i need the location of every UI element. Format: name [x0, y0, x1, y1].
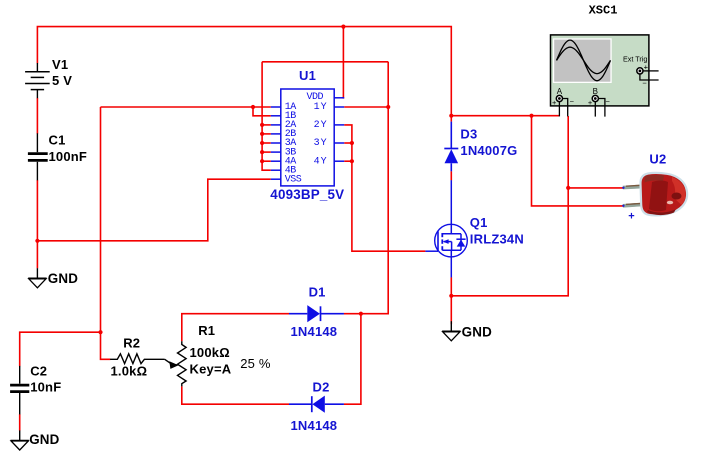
svg-text:GND: GND [462, 325, 492, 340]
svg-text:V1: V1 [52, 57, 68, 72]
svg-text:5 V: 5 V [52, 73, 72, 88]
svg-text:1N4007G: 1N4007G [460, 143, 517, 158]
svg-text:XSC1: XSC1 [589, 3, 618, 17]
svg-text:+: + [644, 62, 649, 71]
svg-text:25 %: 25 % [240, 356, 271, 371]
svg-text:−: − [606, 97, 611, 106]
svg-text:D2: D2 [313, 379, 330, 394]
svg-text:R1: R1 [198, 323, 215, 338]
svg-text:IRLZ34N: IRLZ34N [470, 232, 524, 247]
svg-text:4Y: 4Y [314, 156, 328, 167]
svg-text:+: + [628, 211, 634, 223]
svg-text:VSS: VSS [285, 174, 302, 185]
svg-text:D1: D1 [309, 285, 326, 300]
svg-text:Q1: Q1 [470, 215, 488, 230]
svg-text:U2: U2 [649, 151, 666, 166]
svg-text:GND: GND [48, 271, 78, 286]
svg-text:1Y: 1Y [314, 102, 328, 113]
svg-text:4093BP_5V: 4093BP_5V [270, 187, 344, 202]
svg-text:100kΩ: 100kΩ [190, 345, 230, 360]
svg-text:B: B [593, 87, 598, 96]
svg-text:GND: GND [29, 432, 59, 447]
svg-text:1.0kΩ: 1.0kΩ [111, 364, 148, 379]
svg-text:U1: U1 [299, 68, 316, 83]
svg-text:1N4148: 1N4148 [291, 324, 338, 339]
svg-text:C2: C2 [30, 363, 47, 378]
svg-text:−: − [570, 97, 575, 106]
svg-text:R2: R2 [123, 336, 140, 351]
svg-text:2Y: 2Y [314, 120, 328, 131]
svg-text:D3: D3 [460, 126, 477, 141]
svg-text:10nF: 10nF [30, 380, 61, 395]
svg-text:+: + [588, 98, 593, 107]
svg-text:100nF: 100nF [49, 149, 88, 164]
svg-text:C1: C1 [49, 133, 66, 148]
svg-text:+: + [552, 98, 557, 107]
svg-text:Key=A: Key=A [190, 361, 232, 376]
svg-text:A: A [557, 87, 563, 96]
svg-text:3Y: 3Y [314, 138, 328, 149]
svg-text:−: − [642, 78, 647, 87]
svg-text:1N4148: 1N4148 [291, 418, 338, 433]
